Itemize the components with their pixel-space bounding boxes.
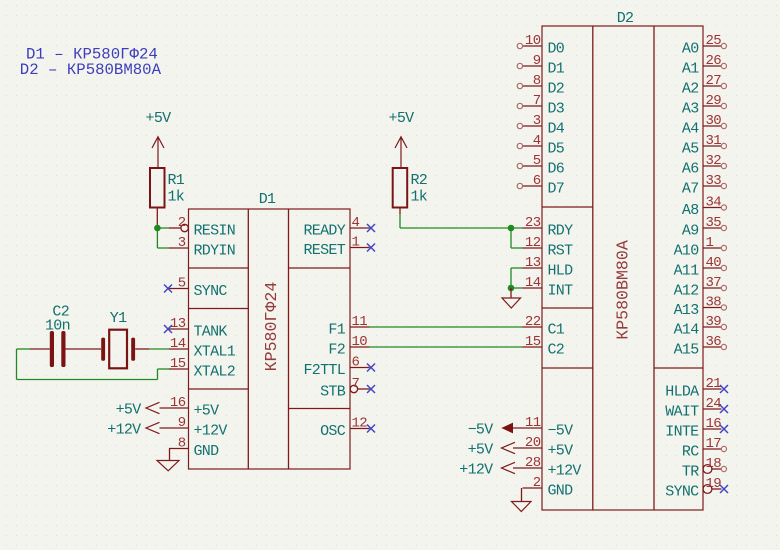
svg-text:11: 11: [352, 314, 368, 330]
svg-text:6: 6: [352, 355, 360, 371]
svg-text:+5V: +5V: [468, 442, 494, 459]
svg-text:A9: A9: [682, 223, 699, 240]
svg-text:14: 14: [170, 336, 186, 352]
svg-text:16: 16: [706, 416, 722, 432]
svg-text:F1: F1: [328, 322, 345, 339]
ground symbol at D1 pin 8: [157, 449, 179, 471]
D2 pin 35 A9: [682, 215, 727, 240]
svg-text:A13: A13: [674, 302, 700, 319]
svg-text:A11: A11: [674, 263, 700, 280]
D2 pin 1 A10: [674, 235, 727, 260]
D2 pin 25 A0: [682, 33, 727, 58]
svg-text:17: 17: [706, 436, 722, 452]
svg-text:36: 36: [706, 334, 722, 350]
svg-text:10n: 10n: [45, 317, 70, 334]
D2 pin 36 A15: [674, 334, 727, 359]
svg-text:11: 11: [525, 415, 541, 431]
D2 pin 17 RC: [682, 436, 727, 461]
svg-text:19: 19: [706, 476, 722, 492]
svg-text:+5V: +5V: [116, 402, 142, 419]
svg-text:A2: A2: [682, 81, 699, 98]
svg-text:OSC: OSC: [320, 423, 346, 440]
svg-text:24: 24: [706, 396, 722, 412]
svg-text:D2: D2: [548, 81, 565, 98]
svg-text:9: 9: [533, 53, 541, 69]
D1 pin 2 RESIN: [169, 215, 235, 240]
svg-text:2: 2: [178, 215, 186, 231]
D2 pin 2 GND: [523, 475, 574, 500]
svg-text:1k: 1k: [168, 189, 185, 206]
svg-text:D3: D3: [548, 101, 565, 118]
svg-text:7: 7: [352, 376, 360, 392]
svg-text:6: 6: [533, 173, 541, 189]
svg-text:−5V: −5V: [548, 423, 574, 440]
D2 pin 13 HLD: [523, 255, 574, 280]
ground symbol at INT: [502, 288, 521, 308]
svg-text:15: 15: [525, 334, 541, 350]
svg-text:+12V: +12V: [194, 423, 228, 440]
D2 pin 14 INT: [523, 275, 574, 300]
svg-text:3: 3: [533, 113, 541, 129]
svg-text:D5: D5: [548, 141, 565, 158]
svg-text:26: 26: [706, 53, 722, 69]
svg-text:13: 13: [170, 316, 186, 332]
wire junction to RST: [511, 228, 523, 248]
power label -5V at D2 pin 11 (filled arrow): [468, 422, 513, 439]
svg-text:GND: GND: [548, 483, 574, 500]
svg-text:1k: 1k: [411, 189, 428, 206]
svg-text:A15: A15: [674, 342, 700, 359]
svg-text:13: 13: [525, 255, 541, 271]
svg-text:+12V: +12V: [107, 422, 141, 439]
D1 pin 6 F2TTL: [303, 355, 375, 380]
junction node INT: [508, 285, 515, 292]
svg-text:STB: STB: [320, 384, 346, 401]
svg-text:8: 8: [533, 73, 541, 89]
svg-text:10: 10: [352, 334, 368, 350]
D2 pin 11 -5V: [513, 415, 573, 440]
svg-text:4: 4: [533, 133, 541, 149]
svg-text:3: 3: [178, 235, 186, 251]
svg-text:A12: A12: [674, 283, 699, 300]
svg-text:7: 7: [533, 93, 541, 109]
note: legend text D1/D2: [20, 45, 162, 79]
svg-text:+5V: +5V: [389, 110, 415, 127]
svg-text:A1: A1: [682, 61, 699, 78]
svg-text:F2: F2: [328, 342, 345, 359]
svg-text:1: 1: [706, 235, 714, 251]
svg-text:28: 28: [525, 455, 541, 471]
svg-text:32: 32: [706, 153, 722, 169]
D1 pin 11 F1: [328, 314, 369, 339]
svg-text:INTE: INTE: [665, 424, 699, 441]
wire F2 to C2: [370, 346, 523, 348]
power label +12V at D1 pin 9: [107, 422, 159, 439]
power label +5V at D2 pin 20: [468, 442, 515, 459]
svg-text:RC: RC: [682, 444, 699, 461]
D2 pin 38 A13: [674, 295, 727, 320]
svg-text:14: 14: [525, 275, 541, 291]
svg-text:5: 5: [178, 276, 186, 292]
svg-text:39: 39: [706, 314, 722, 330]
svg-text:+5V: +5V: [146, 110, 172, 127]
svg-text:C2: C2: [548, 342, 565, 359]
svg-text:F2TTL: F2TTL: [303, 362, 345, 379]
svg-text:9: 9: [178, 415, 186, 431]
D1 pin 10 F2: [328, 334, 369, 359]
svg-text:A8: A8: [682, 202, 699, 219]
svg-text:A5: A5: [682, 141, 699, 158]
svg-text:A7: A7: [682, 181, 699, 198]
svg-text:INT: INT: [548, 283, 574, 300]
D2 pin 27 A2: [682, 73, 727, 98]
svg-text:R2: R2: [411, 172, 428, 189]
svg-text:A14: A14: [674, 322, 700, 339]
svg-text:33: 33: [706, 173, 722, 189]
D2 pin 8 D2: [517, 73, 564, 98]
svg-text:SYNC: SYNC: [665, 484, 699, 501]
D2 pin 39 A14: [674, 314, 727, 339]
D2 pin 32 A6: [682, 153, 727, 178]
svg-text:Y1: Y1: [110, 310, 127, 327]
wire Y1 to XTAL1: [149, 348, 170, 350]
svg-text:D2 – КР580ВМ80А: D2 – КР580ВМ80А: [20, 61, 162, 79]
svg-text:D6: D6: [548, 161, 565, 178]
svg-text:A3: A3: [682, 101, 699, 118]
svg-text:21: 21: [706, 376, 722, 392]
op chip D1 KR580GF24 body: [189, 209, 351, 469]
svg-text:2: 2: [533, 475, 541, 491]
svg-text:WAIT: WAIT: [665, 404, 699, 421]
svg-text:22: 22: [525, 314, 541, 330]
D1 pin 15 XTAL2: [169, 356, 235, 381]
svg-text:27: 27: [706, 73, 722, 89]
ground symbol at D2 pin 2: [512, 488, 532, 512]
resistor R2 1k: [393, 168, 428, 214]
svg-text:R1: R1: [168, 172, 185, 189]
resistor R1 1k: [150, 168, 185, 228]
svg-text:29: 29: [706, 93, 722, 109]
power symbol +5V (above R1): [146, 110, 172, 168]
svg-text:35: 35: [706, 215, 722, 231]
svg-text:16: 16: [170, 395, 186, 411]
D2 pin 29 A3: [682, 93, 727, 118]
svg-text:A4: A4: [682, 121, 699, 138]
svg-text:+5V: +5V: [194, 403, 220, 420]
svg-text:READY: READY: [303, 223, 345, 240]
svg-text:RDY: RDY: [548, 223, 574, 240]
crystal Y1: [101, 310, 149, 368]
svg-text:18: 18: [706, 456, 722, 472]
wire XTAL2 feedback loop: [17, 349, 170, 380]
svg-text:XTAL2: XTAL2: [194, 364, 236, 381]
svg-text:RESIN: RESIN: [194, 223, 236, 240]
D2 pin 10 D0: [517, 33, 565, 58]
wire junction down to RDYIN: [157, 228, 169, 248]
svg-text:+5V: +5V: [548, 443, 574, 460]
svg-text:23: 23: [525, 215, 541, 231]
svg-text:34: 34: [706, 195, 722, 211]
svg-text:+12V: +12V: [548, 463, 582, 480]
svg-text:RESET: RESET: [303, 242, 345, 259]
D1 pin 8 GND: [169, 436, 219, 461]
svg-text:1: 1: [352, 235, 360, 251]
svg-text:D0: D0: [548, 41, 565, 58]
D2 pin 23 RDY: [523, 215, 574, 240]
D2 pin 6 D7: [517, 173, 564, 198]
D1 pin 7 STB: [320, 376, 375, 401]
D2 pin 12 RST: [523, 235, 574, 260]
D2 pin 28 +12V: [513, 455, 581, 480]
D2 pin 5 D6: [517, 153, 565, 178]
D2 pin 22 C1: [523, 314, 565, 339]
svg-text:D1: D1: [548, 61, 565, 78]
D2 pin 7 D3: [517, 93, 565, 118]
svg-text:D7: D7: [548, 181, 565, 198]
wire R2 to RDY: [400, 214, 523, 228]
D2 pin 31 A5: [682, 133, 727, 158]
svg-text:15: 15: [170, 356, 186, 372]
svg-text:40: 40: [706, 255, 722, 271]
power label +12V at D2 pin 28: [459, 462, 515, 479]
svg-text:HLDA: HLDA: [665, 384, 699, 401]
D2 pin 34 A8: [682, 195, 727, 220]
svg-text:КР580ВМ80А: КР580ВМ80А: [614, 240, 633, 340]
cpu chip D2 KR580VM80A body: [542, 26, 703, 510]
svg-text:25: 25: [706, 33, 722, 49]
D1 pin 5 SYNC: [164, 276, 227, 301]
svg-text:12: 12: [525, 235, 541, 251]
D1 pin 1 RESET: [303, 235, 375, 260]
svg-text:RDYIN: RDYIN: [194, 243, 236, 260]
svg-text:D4: D4: [548, 121, 565, 138]
svg-text:4: 4: [352, 215, 360, 231]
D1 pin 3 RDYIN: [169, 235, 235, 260]
svg-text:XTAL1: XTAL1: [194, 344, 236, 361]
wire F1 to C1: [370, 326, 523, 328]
svg-text:20: 20: [525, 435, 541, 451]
svg-text:TANK: TANK: [194, 324, 228, 341]
svg-text:C1: C1: [548, 322, 565, 339]
power symbol +5V (above R2): [389, 110, 415, 168]
junction node at R1 bottom: [154, 225, 161, 232]
svg-text:10: 10: [525, 33, 541, 49]
D1 pin 14 XTAL1: [169, 336, 236, 361]
D2 pin 19 SYNC: [665, 476, 728, 501]
svg-text:5: 5: [533, 153, 541, 169]
svg-text:37: 37: [706, 275, 722, 291]
svg-text:8: 8: [178, 436, 186, 452]
D2 pin 9 D1: [517, 53, 565, 78]
svg-text:GND: GND: [194, 443, 220, 460]
svg-text:D2: D2: [617, 10, 634, 27]
D2 pin 33 A7: [682, 173, 727, 198]
svg-text:31: 31: [706, 133, 722, 149]
svg-text:A6: A6: [682, 161, 699, 178]
capacitor C2 10n: [30, 304, 101, 368]
D2 pin 37 A12: [674, 275, 727, 300]
D2 pin 18 TR: [682, 456, 727, 481]
svg-text:38: 38: [706, 295, 722, 311]
D2 pin 20 +5V: [513, 435, 573, 460]
D2 pin 30 A4: [682, 113, 727, 138]
wire R1 to RESIN: [157, 227, 169, 229]
svg-text:TR: TR: [682, 464, 699, 481]
svg-text:30: 30: [706, 113, 722, 129]
junction node RDY branch: [508, 225, 515, 232]
wire HLD to INT: [511, 268, 523, 288]
D2 pin 3 D4: [517, 113, 565, 138]
D2 pin 15 C2: [523, 334, 565, 359]
svg-text:HLD: HLD: [548, 263, 574, 280]
svg-text:SYNC: SYNC: [194, 283, 228, 300]
D2 pin 24 WAIT: [665, 396, 728, 421]
D2 pin 21 HLDA: [665, 376, 728, 401]
D1 pin 9 +12V: [160, 415, 228, 440]
D2 pin 16 INTE: [665, 416, 728, 441]
svg-text:−5V: −5V: [468, 422, 494, 439]
D2 pin 26 A1: [682, 53, 727, 78]
D1 pin 12 OSC: [320, 416, 375, 441]
svg-text:КР580ГФ24: КР580ГФ24: [262, 282, 281, 372]
D1 pin 4 READY: [303, 215, 375, 240]
svg-text:12: 12: [352, 416, 368, 432]
svg-text:RST: RST: [548, 243, 574, 260]
svg-text:+12V: +12V: [459, 462, 493, 479]
D2 pin 4 D5: [517, 133, 565, 158]
power label +5V at D1 pin 16: [116, 402, 160, 419]
D2 pin 40 A11: [674, 255, 727, 280]
svg-text:D1: D1: [259, 191, 276, 208]
D1 pin 16 +5V: [160, 395, 220, 420]
svg-text:A10: A10: [674, 243, 700, 260]
svg-text:A0: A0: [682, 41, 699, 58]
D1 pin 13 TANK: [164, 316, 227, 341]
